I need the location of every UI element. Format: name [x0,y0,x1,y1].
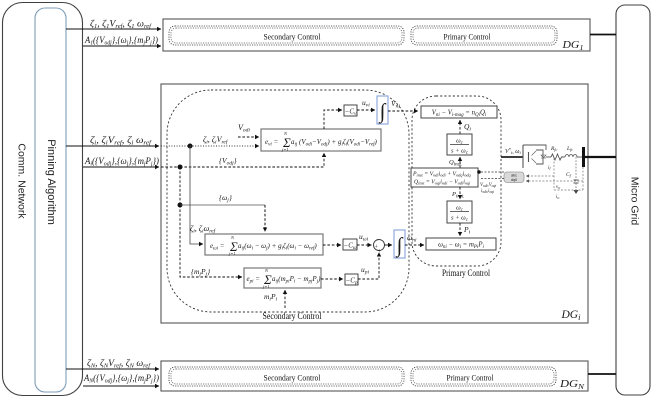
block -Cp [345,274,358,286]
block abc-dq0 [504,172,524,183]
wire DG1 to microgrid [590,34,616,36]
svg-text:Secondary Control: Secondary Control [263,311,322,321]
svg-text:ζi, ζiVref, ζi ωref: ζi, ζiVref, ζi ωref [90,135,153,147]
sum circle [374,240,385,255]
secondary control dashed region [167,90,409,312]
svg-text:iodi,ioqi: iodi,ioqi [481,189,494,194]
block e_wi [205,234,323,256]
svg-text:DGi: DGi [561,309,582,322]
svg-text:abc: abc [511,174,517,178]
DGN secondary control [169,367,404,386]
block filter P [447,201,472,223]
DGi outer box [161,84,588,323]
block -Cv [344,105,357,117]
inductor Lfc [563,146,582,157]
wire Cw to sum [357,232,372,245]
svg-text:Vodi,Voqi: Vodi,Voqi [480,183,496,188]
wire DGN to microgrid [588,373,616,375]
svg-text:Secondary Control: Secondary Control [264,32,322,42]
svg-text:AN({Vodj},{ωj},{mjPj}): AN({Vodj},{ωj},{mjPj}) [83,373,159,385]
wire w_ni to droop [405,233,424,245]
block voltage droop [421,106,497,118]
svg-text:vo: vo [556,185,560,190]
wire zeta1 to DG1 [66,19,161,31]
svg-text:Rfc: Rfc [550,146,557,152]
comm network box [3,3,83,396]
DG1 outer box [163,19,590,52]
integrator V [377,96,388,124]
svg-text:Secondary Control: Secondary Control [264,373,322,383]
svg-text:Pinning Algorithm: Pinning Algorithm [45,139,57,225]
bus bar [582,147,585,167]
wire zetaN to DGN [66,358,159,370]
wire miPi into e_pi [264,290,285,308]
DG1 secondary control [169,26,404,45]
wire Q_inst [449,157,462,168]
svg-text:j=1: j=1 [262,284,270,289]
block e_vi [261,129,381,152]
svg-text:Lfc: Lfc [566,146,573,152]
svg-text:Comm. Network: Comm. Network [16,143,28,219]
svg-text:j=1: j=1 [281,147,289,152]
svg-text:{ωj}: {ωj} [219,193,232,204]
label V_odi stub arrow [238,123,259,137]
wire i_l feedback [526,158,554,190]
wire AN to DGN [83,373,159,386]
block freq droop [426,238,496,250]
svg-text:Primary Control: Primary Control [444,32,492,42]
wire omega_j to e_wi top [180,193,265,232]
svg-text:Qinst = Voqiiodi − Vodiioqi: Qinst = Voqiiodi − Vodiioqi [414,180,471,186]
svg-text:∫: ∫ [378,99,387,124]
wire Qi [460,120,471,134]
svg-text:io: io [556,195,559,200]
svg-text:∫: ∫ [395,233,404,258]
svg-text:Primary Control: Primary Control [447,373,495,383]
pinning algorithm box [35,8,66,392]
block e_pi [244,268,321,289]
wire e_wi to Cw [323,244,341,246]
svg-text:Pinst = Vodiiodi + Vodqiodq: Pinst = Vodiiodi + Vodqiodq [412,172,471,178]
DGN primary control [411,367,556,386]
wire trunk down to mp line [180,205,242,277]
svg-text:Primary Control: Primary Control [442,268,490,278]
wire Cp up to sum [358,253,379,280]
wire measurements to PQ block [477,170,504,194]
integrator w [394,230,405,258]
DG1 primary control [411,26,557,45]
node A junction [161,165,183,170]
wire A_i into DGi [83,156,159,168]
wire zeta omega ref elbow to e_wi [190,146,217,244]
wire P_i [460,223,471,236]
primary control dashed region [412,96,501,266]
wire A1 to DG1 [83,35,161,47]
wire bus to microgrid [585,156,616,158]
svg-text:dq0: dq0 [511,178,517,182]
svg-text:V*i, ωi: V*i, ωi [505,147,521,155]
resistor Rfc [550,146,563,160]
wire e_vi up to Cv [324,110,342,129]
wire P_inst [451,187,464,199]
wire vo io feedback [526,167,583,200]
wire zeta_i into DGi [66,135,159,147]
node zeta junction [161,144,193,149]
node omega junction [178,203,183,208]
svg-text:A1({Vodj},{ωj},{mjPj}): A1({Vodj},{ωj},{mjPj}) [84,35,158,47]
block PQ calc [411,168,478,187]
wire Cv to integrator V [357,98,375,110]
wire sum to integrator w [385,244,393,246]
wire zeta_i zetaV_ref to e_vi [190,135,259,146]
wire Vni to primary [388,99,418,111]
wire V_odj to e_vi bottom [180,153,324,167]
svg-text:{mjPj}: {mjPj} [191,267,210,278]
wire V* omega to inverter [501,147,523,157]
svg-text:miPi: miPi [264,292,278,303]
block -Cw [343,239,357,251]
wire e_pi to Cp [321,278,343,280]
svg-text:j=1: j=1 [228,251,236,256]
svg-text:Ai({Vodj},{ωj},{mjPj}): Ai({Vodj},{ωj},{mjPj}) [84,156,159,168]
DGN outer box [161,361,588,391]
micro grid box [616,5,650,395]
inverter [523,145,551,168]
block filter Q [447,134,472,156]
capacitor Cf [566,157,579,194]
svg-text:Micro Grid: Micro Grid [629,177,641,226]
wire trunk down to omega node [179,167,181,205]
